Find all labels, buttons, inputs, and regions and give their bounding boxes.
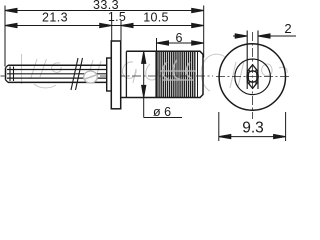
centerline (front view, horizontal): [216, 76, 291, 78]
centerline (side view): [1, 75, 5, 77]
dimension ø6 (vertical, hub): [142, 51, 182, 117]
dimension line 21.3 / 1.5 / 10.5: [5, 23, 204, 27]
svg-text:21.3: 21.3: [42, 11, 68, 25]
slot lines: [247, 31, 258, 90]
watermark strokes: [22, 54, 288, 91]
flange: [111, 41, 120, 109]
dimension 9.3: [219, 112, 286, 141]
svg-text:6: 6: [176, 31, 183, 45]
extension lines (top dimensions): [5, 6, 204, 67]
svg-text:9.3: 9.3: [242, 120, 264, 137]
centerline (front view, vertical): [252, 32, 254, 119]
shaft (threaded, side view): [6, 65, 108, 82]
watermark streaks over knurl: [160, 60, 196, 80]
hex socket: [247, 65, 257, 89]
knurling: [156, 51, 195, 97]
dimension line 33.3: [5, 8, 204, 12]
break marks on shaft: [71, 58, 83, 90]
knob body: [121, 51, 203, 97]
dimension line 6 (knurl length): [157, 41, 204, 45]
hub circle: [235, 59, 271, 95]
center circle: [247, 71, 258, 82]
svg-text:1.5: 1.5: [108, 10, 126, 24]
svg-text:10.5: 10.5: [143, 11, 169, 25]
watermark blotch over shaft: [84, 71, 98, 83]
dimension 2: [233, 34, 296, 38]
washer: [107, 58, 112, 91]
svg-text:2: 2: [284, 21, 291, 36]
svg-text:ø 6: ø 6: [153, 105, 171, 119]
front view outer circle ø9.3: [219, 44, 285, 110]
